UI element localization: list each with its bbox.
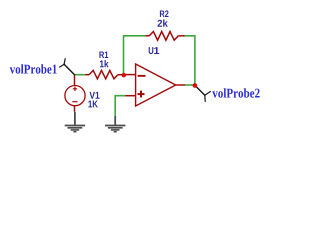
op-amp U1 minus sign [138,75,146,77]
label R1 [99,51,108,58]
resistor R1 [85,70,123,78]
wire: op-amp output to output node [185,84,195,86]
label V1 [89,92,99,99]
value 1K [88,101,97,108]
wire: feedback net from R2 left pin, corner, down to inverting node [124,36,146,75]
probe volProbe1 tip [60,59,75,75]
wire: feedback net from R2 right pin, corner, down to output node [185,36,195,86]
junction node at output [193,83,198,88]
voltage source V1 body [65,86,85,106]
op-amp U1 body [136,64,176,106]
op-amp U1 non-inverting input pin [126,95,136,97]
wire: source node to R1 left lead [74,74,85,76]
label volProbe1 [10,64,57,73]
value 2k [158,19,168,26]
op-amp U1 inverting input pin [124,74,136,76]
voltage source V1 plus mark [73,87,77,91]
label R2 [160,10,169,17]
voltage source V1 top pin [74,75,76,85]
value 1k [100,60,109,67]
voltage source V1 minus mark [72,101,77,103]
junction node at inverting input [122,73,127,78]
label U1 digit [154,47,159,54]
voltage source V1 bottom pin [74,106,76,112]
op-amp U1 output pin [176,84,185,86]
ground under V1 [65,112,85,132]
label U1 [149,47,154,54]
probe volProbe2 tip [195,86,210,102]
resistor R2 [145,32,184,41]
wire: non-inverting input to ground [115,96,125,116]
ground under non-inverting input [105,116,125,132]
op-amp U1 plus sign [138,91,145,98]
label volProbe2 [212,88,259,97]
